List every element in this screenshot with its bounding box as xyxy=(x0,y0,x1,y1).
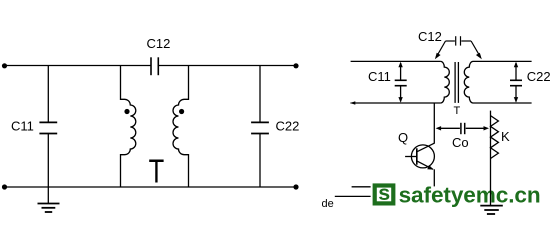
svg-text:de: de xyxy=(322,198,334,210)
svg-text:safetyemc.cn: safetyemc.cn xyxy=(399,183,541,208)
polarity dot (primary) xyxy=(124,109,129,114)
arrowhead Co right xyxy=(484,126,490,130)
arrowhead C22 down xyxy=(514,97,518,103)
arrow at left end of bottom-left rail xyxy=(350,101,355,105)
node: bottom-right terminal dot xyxy=(293,184,298,189)
resistor K zigzag xyxy=(491,116,499,159)
inductor: primary winding of transformer T xyxy=(121,66,136,188)
arrowhead C22 up xyxy=(514,62,518,68)
wire: top-right rail xyxy=(473,60,532,62)
wire: collector vertical from bottom rail xyxy=(433,103,435,144)
inductor: secondary winding of transformer T xyxy=(173,66,188,188)
arrowhead C12 left xyxy=(435,53,441,60)
svg-text:C22: C22 xyxy=(527,69,550,84)
wire: emitter vertical down xyxy=(433,169,435,186)
capacitor Co annotation xyxy=(440,127,484,129)
ground xyxy=(38,187,60,212)
node: top-left terminal dot xyxy=(2,63,7,68)
wire: top rail right segment xyxy=(158,65,296,67)
ground (right circuit) xyxy=(480,206,503,214)
svg-text:C11: C11 xyxy=(368,69,391,84)
transformer core bars xyxy=(455,62,458,103)
inductor: left winding of T xyxy=(441,61,450,103)
inductor: right winding of T xyxy=(464,61,473,103)
transistor base bar xyxy=(416,148,418,164)
svg-text:C12: C12 xyxy=(147,36,171,51)
svg-text:Q: Q xyxy=(398,130,408,145)
wire: top rail left segment xyxy=(4,65,151,67)
arrowhead C11 down xyxy=(398,97,402,103)
svg-text:C11: C11 xyxy=(11,119,34,134)
wire: bottom-right rail xyxy=(473,102,532,104)
transistor Q1 circle xyxy=(411,145,434,168)
wire: output line 2 (partially covered by watermark) xyxy=(335,195,371,197)
capacitor C22 (right shunt) xyxy=(259,66,261,188)
capacitor C11 (left shunt) xyxy=(47,66,49,188)
transistor collector lead xyxy=(417,143,435,152)
arrowhead C12 right xyxy=(476,53,482,60)
wire: output line 1 (partially covered by watermark) xyxy=(352,186,371,188)
svg-text:C12: C12 xyxy=(418,29,442,44)
emitter arrowhead xyxy=(427,165,433,169)
capacitor C12 (series in top rail) xyxy=(151,57,158,75)
svg-text:T: T xyxy=(454,105,461,117)
wire: top-left rail xyxy=(351,60,441,62)
node: bottom-left terminal dot xyxy=(2,184,7,189)
svg-text:K: K xyxy=(501,129,510,144)
svg-text:s: s xyxy=(378,181,390,205)
svg-text:T: T xyxy=(149,152,165,189)
capacitor C22 annotation (right side) xyxy=(515,63,517,102)
capacitor C11 annotation (left) xyxy=(400,63,402,102)
capacitor C12 annotation (top) xyxy=(436,36,480,57)
node: top-right terminal dot xyxy=(293,63,298,68)
watermark logo box with s xyxy=(375,181,394,205)
transistor base lead xyxy=(405,156,417,158)
svg-text:Co: Co xyxy=(452,135,469,150)
wire: bottom rail xyxy=(4,186,297,188)
arrowhead C11 up xyxy=(398,62,402,68)
arrowhead Co left xyxy=(436,126,442,130)
resistor K vertical lead xyxy=(490,111,492,206)
wire: bottom-left rail xyxy=(352,102,441,104)
transistor emitter lead xyxy=(417,161,433,169)
polarity dot (secondary) xyxy=(179,109,184,114)
svg-text:C22: C22 xyxy=(276,119,300,134)
